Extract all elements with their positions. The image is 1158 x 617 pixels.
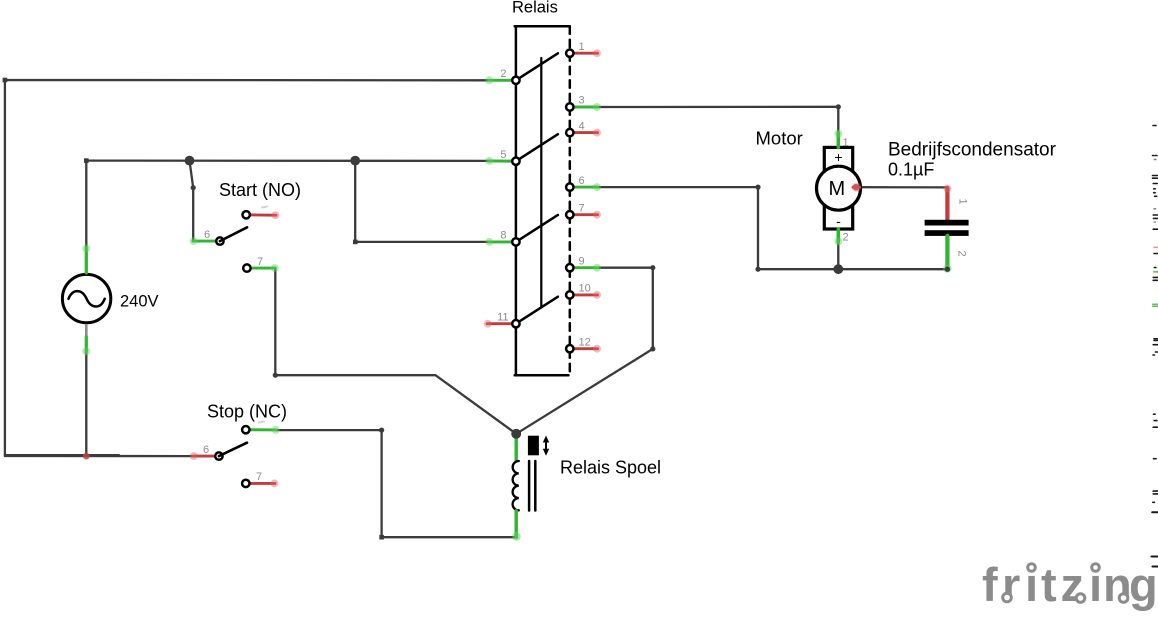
- svg-text:Bedrijfscondensator: Bedrijfscondensator: [888, 140, 1057, 161]
- svg-text:2: 2: [843, 232, 849, 244]
- relay coil armature rect: [528, 436, 539, 456]
- bend nub (4.9,80): [3, 78, 8, 83]
- Stop switch S2 pin 6 (red, connected): [190, 452, 223, 460]
- capacitor bottom lead (green): [943, 236, 951, 273]
- AC source top lead (green): [82, 245, 90, 274]
- wire W5 Start pin7 to coil junction: [275, 268, 516, 434]
- svg-text:7: 7: [256, 471, 262, 483]
- svg-text:1: 1: [843, 137, 849, 149]
- motor circle: [817, 166, 861, 210]
- wire W1 top-left loop from source line to relay pin 2: [5, 80, 489, 456]
- junction dot at (189.5,160.6): [185, 156, 195, 166]
- relay pin 2 lead (green): [485, 76, 519, 84]
- junction dot at (355,160.6): [350, 156, 360, 166]
- wire W4 branch to relay pin 8: [355, 161, 489, 242]
- relay switch arm 4 (pin11 to pin10): [516, 297, 558, 324]
- wire W8 relay pin3 to motor pin1: [598, 107, 839, 133]
- relay pin 5 lead (green): [485, 157, 519, 165]
- relay pin 8 lead (green): [485, 238, 519, 246]
- wire W9 relay pin6 to capacitor bottom: [598, 187, 948, 269]
- svg-text:2: 2: [956, 251, 968, 257]
- Stop switch arm: [219, 443, 247, 456]
- motor M1 body rect: [824, 147, 852, 229]
- svg-text:-: -: [836, 213, 841, 229]
- relay mechanical link line: [540, 58, 542, 308]
- svg-text:6: 6: [579, 175, 585, 187]
- relay U1 outline left side: [515, 26, 518, 375]
- relay pin 12 lead (red): [566, 345, 601, 353]
- wire 240V bottom vertical: [85, 351, 87, 456]
- bend nub (652.8,348.9): [650, 346, 655, 351]
- junction dot coil top: [511, 429, 521, 439]
- wire 240V top vertical: [85, 161, 87, 248]
- svg-text:8: 8: [500, 230, 506, 242]
- relay pin 4 lead (red): [566, 129, 601, 137]
- relay switch arm 3 (pin8 to pin7): [516, 215, 558, 242]
- relay pin 6 lead (green): [566, 183, 601, 191]
- bend nub (838,107): [836, 104, 841, 109]
- svg-text:Stop (NC): Stop (NC): [207, 402, 287, 422]
- capacitor C1 top lead (red): [943, 185, 951, 220]
- svg-text:7: 7: [257, 256, 263, 268]
- svg-text:r: r: [1002, 558, 1020, 611]
- capacitor plate 2: [925, 230, 969, 236]
- Start switch S1 pin 6: [190, 237, 224, 245]
- svg-text:11: 11: [497, 311, 508, 323]
- bend nub (381.6,537): [379, 535, 384, 540]
- relay pin 11 lead (red, unconnected): [484, 320, 520, 328]
- svg-text:9: 9: [579, 255, 585, 267]
- AC source V1 circle: [62, 274, 110, 322]
- bend nub (758,269): [755, 267, 760, 272]
- coil junction dot redraw on top: [511, 429, 521, 439]
- wire motor pin2 down to W9: [837, 242, 839, 269]
- bend nub elbow start branch: [191, 185, 196, 190]
- relay U1 outline right side (dashed): [569, 26, 572, 375]
- junction dot 240V bottom (red tint): [83, 453, 90, 460]
- relay coil core line 2: [534, 461, 537, 511]
- bend nub (86.3,160.6): [84, 158, 89, 163]
- motor pin 1 lead (green): [834, 130, 842, 148]
- relay coil core line 1: [528, 461, 531, 511]
- svg-text:M: M: [828, 178, 845, 200]
- Start switch upper pin (red): [243, 211, 280, 219]
- svg-text:12: 12: [579, 336, 591, 348]
- junction dot motor pin2 / bottom wire: [833, 264, 843, 274]
- wire W2 horizontal 240V-top to relay pin 5: [86, 159, 489, 162]
- svg-text:n: n: [1103, 558, 1132, 611]
- Start switch pin 7 (green): [243, 264, 279, 272]
- relay coil bottom lead (green): [512, 511, 520, 541]
- AC source sine wave: [69, 291, 105, 306]
- relay pin 10 lead (red): [566, 291, 601, 299]
- relay pin 3 lead (green): [566, 103, 601, 111]
- svg-text:Start (NO): Start (NO): [219, 180, 301, 200]
- svg-text:+: +: [834, 149, 842, 165]
- svg-text:Relais Spoel: Relais Spoel: [560, 458, 661, 478]
- Stop switch pin 7 (red): [242, 479, 278, 487]
- clipped marks at right edge: [1152, 126, 1158, 567]
- svg-text:5: 5: [500, 149, 506, 161]
- relay pin 1 lead (red): [566, 49, 601, 57]
- AC source bottom lead (gray+green): [82, 325, 90, 355]
- capacitor plate 1: [925, 220, 969, 226]
- svg-text:0.1µF: 0.1µF: [888, 160, 934, 180]
- svg-text:3: 3: [579, 95, 585, 107]
- relay switch arm 2 (pin5 to pin4): [516, 134, 558, 161]
- bend nub (355,241.9): [353, 240, 358, 245]
- svg-text:t: t: [1041, 558, 1057, 611]
- motor right terminal (red): [852, 183, 861, 192]
- Stop switch upper pin (green, connected): [242, 426, 280, 434]
- svg-text:240V: 240V: [120, 293, 159, 311]
- Stop switch faint label mark: [259, 422, 264, 423]
- wire W11 relay pin9 to coil junction: [516, 268, 653, 434]
- svg-text:7: 7: [579, 202, 585, 214]
- svg-text:f: f: [982, 558, 998, 611]
- relay coil arrow: [545, 442, 547, 451]
- svg-text:4: 4: [579, 120, 585, 132]
- relay U1 outline bottom edge: [515, 374, 569, 377]
- svg-text:1: 1: [579, 41, 585, 53]
- wire branch to Start switch pin 6: [190, 161, 194, 242]
- relay pin 9 lead (green): [566, 264, 601, 272]
- bend nub (652.8,267.7): [650, 265, 655, 270]
- svg-text:10: 10: [579, 283, 591, 295]
- Start switch faint label mark: [262, 207, 267, 208]
- svg-text:Motor: Motor: [756, 127, 803, 148]
- bend nub (758,187): [755, 185, 760, 190]
- relay coil windings: [513, 461, 519, 510]
- svg-text:6: 6: [204, 229, 210, 241]
- wire W6 Stop upper pin to coil bottom: [276, 430, 517, 537]
- svg-text:2: 2: [500, 68, 506, 80]
- svg-text:Relais: Relais: [512, 0, 558, 17]
- svg-text:6: 6: [203, 444, 209, 456]
- relay coil L1 top lead (green): [515, 437, 518, 462]
- wire W10 motor right terminal to capacitor top: [861, 186, 948, 188]
- svg-text:1: 1: [957, 199, 969, 205]
- relay U1 outline top edge: [515, 25, 570, 28]
- bend nub (275,375): [273, 373, 278, 378]
- bend nub (381.6,430): [379, 428, 384, 433]
- Start switch arm: [220, 227, 247, 241]
- relay switch arm 1 (pin2 to pin1): [516, 53, 558, 80]
- motor pin 2 lead (green): [834, 229, 842, 246]
- fritzing logo: [982, 558, 1158, 611]
- relay pin 7 lead (red): [566, 211, 601, 219]
